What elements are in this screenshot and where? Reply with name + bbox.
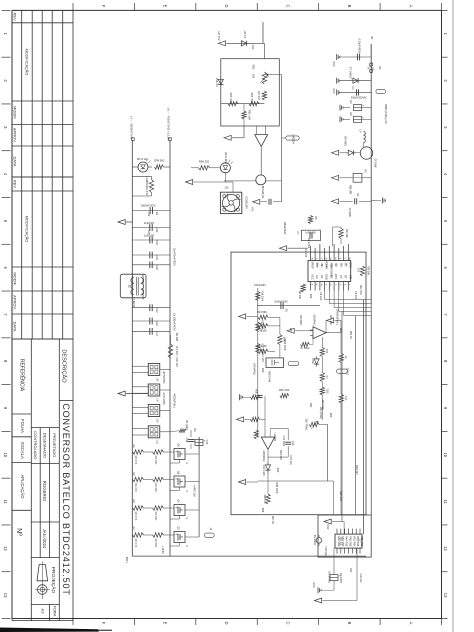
svg-text:C15: C15 <box>205 440 209 445</box>
svg-text:APLICAÇÃO: APLICAÇÃO <box>20 475 25 500</box>
svg-text:VD2 4148: VD2 4148 <box>262 465 265 476</box>
svg-text:D: D <box>224 621 229 624</box>
svg-text:FORM.: FORM. <box>53 606 57 617</box>
svg-text:PROJEÇÃO: PROJEÇÃO <box>50 567 57 594</box>
svg-text:JAN./2024: JAN./2024 <box>42 529 47 549</box>
svg-text:D10: D10 <box>311 359 315 364</box>
svg-text:APROV.: APROV. <box>13 295 18 310</box>
svg-text:D*10d8: D*10d8 <box>374 159 378 168</box>
svg-text:U9 TLP250: U9 TLP250 <box>162 392 165 405</box>
svg-text:UP 24V: UP 24V <box>217 31 221 40</box>
svg-text:C2: C2 <box>315 275 319 279</box>
svg-text:1000uF/25V: 1000uF/25V <box>140 204 155 208</box>
svg-text:AMD (FWL)+F2: AMD (FWL)+F2 <box>384 104 388 124</box>
svg-text:B: B <box>347 5 352 8</box>
svg-text:U7: U7 <box>358 539 362 543</box>
svg-text:R27 1K: R27 1K <box>271 516 274 525</box>
svg-text:C: C <box>285 4 290 7</box>
svg-text:F: F <box>101 5 106 8</box>
svg-text:10uF/25V: 10uF/25V <box>339 573 342 584</box>
svg-text:C13: C13 <box>291 441 294 446</box>
svg-text:16 VREF: 16 VREF <box>325 261 327 271</box>
svg-text:CR9 560: CR9 560 <box>154 159 165 163</box>
svg-text:R14 2K2: R14 2K2 <box>307 238 311 249</box>
svg-text:REF 2V5: REF 2V5 <box>339 491 342 502</box>
svg-text:D13: D13 <box>251 45 255 50</box>
svg-text:MR 22R: MR 22R <box>154 456 157 465</box>
svg-text:FOLHA: FOLHA <box>20 419 25 433</box>
svg-text:2x470uF/25V: 2x470uF/25V <box>173 248 177 266</box>
svg-text:B1 4MHz: B1 4MHz <box>313 535 316 546</box>
svg-text:NS 2x54T: NS 2x54T <box>141 288 144 300</box>
svg-text:D6 4148: D6 4148 <box>344 136 347 146</box>
svg-text:D12: D12 <box>276 468 279 473</box>
svg-text:OSC: OSC <box>330 263 332 268</box>
svg-text:UP 1A: UP 1A <box>243 31 247 39</box>
svg-text:BD139 Q3: BD139 Q3 <box>261 186 265 199</box>
svg-text:R38 100K: R38 100K <box>261 291 264 302</box>
svg-text:LAMPADA 24V: LAMPADA 24V <box>145 176 149 195</box>
svg-text:5A: 5A <box>378 66 381 69</box>
svg-text:A: A <box>408 622 413 625</box>
svg-text:1N4744: 1N4744 <box>215 77 219 87</box>
svg-text:CONVERSOR BATELCO BTDC2412.50T: CONVERSOR BATELCO BTDC2412.50T <box>61 403 71 595</box>
svg-text:2 IN-: 2 IN- <box>320 263 322 268</box>
svg-text:C10: C10 <box>155 321 159 326</box>
svg-text:TV-2WB: TV-2WB <box>348 207 351 217</box>
svg-text:R44 56K: R44 56K <box>257 311 267 314</box>
svg-text:U2B(FWL): U2B(FWL) <box>262 450 265 462</box>
svg-text:F: F <box>101 622 106 625</box>
svg-text:1uF/63V: 1uF/63V <box>144 221 155 225</box>
svg-text:XD & LD: XD & LD <box>137 157 148 161</box>
svg-text:BAT+: BAT+ <box>125 557 129 564</box>
svg-text:MODIFICAÇÃO: MODIFICAÇÃO <box>24 216 29 243</box>
svg-text:B: B <box>347 622 352 625</box>
svg-text:RT: RT <box>344 275 348 279</box>
svg-text:C14: C14 <box>185 438 189 443</box>
svg-text:11: 11 <box>3 499 8 504</box>
svg-text:U10: U10 <box>156 418 159 423</box>
svg-text:C20 102: C20 102 <box>175 357 178 367</box>
svg-text:12: 12 <box>443 546 448 551</box>
svg-text:U2A(FWL): U2A(FWL) <box>313 314 316 326</box>
svg-text:REV: REV <box>13 180 18 189</box>
svg-text:TA: TA <box>366 66 369 69</box>
svg-text:C31 104: C31 104 <box>359 573 362 583</box>
svg-text:R26: R26 <box>261 508 264 513</box>
svg-text:R31: R31 <box>349 568 352 573</box>
svg-text:LM2904: LM2904 <box>292 134 296 144</box>
svg-text:C9 103: C9 103 <box>319 292 322 301</box>
svg-text:R21 1K: R21 1K <box>349 331 352 340</box>
svg-text:APROV.: APROV. <box>13 128 18 143</box>
svg-text:+13,8V: +13,8V <box>161 546 164 554</box>
svg-text:TL431: TL431 <box>346 367 350 375</box>
svg-text:C18: C18 <box>155 265 159 270</box>
svg-text:4K7: 4K7 <box>344 396 347 401</box>
svg-text:R13: R13 <box>309 294 312 299</box>
svg-text:ESCALA: ESCALA <box>20 442 25 459</box>
svg-text:R29 4K7: R29 4K7 <box>355 465 358 475</box>
svg-text:C19 10n: C19 10n <box>289 455 292 465</box>
svg-text:R22 10K: R22 10K <box>321 400 324 410</box>
svg-text:D7 1N4007: D7 1N4007 <box>349 67 352 80</box>
svg-text:REV: REV <box>13 12 18 21</box>
svg-text:C11 104: C11 104 <box>261 352 264 362</box>
svg-text:C22: C22 <box>155 228 159 233</box>
svg-text:E: E <box>163 622 168 625</box>
svg-text:RB3: RB3 <box>349 542 352 547</box>
svg-text:1 IN+: 1 IN+ <box>316 262 318 268</box>
svg-text:RB4: RB4 <box>352 542 355 547</box>
svg-text:IRFZ44N: IRFZ44N <box>268 371 272 382</box>
svg-text:10: 10 <box>3 452 8 457</box>
svg-text:MR 22R: MR 22R <box>154 512 157 521</box>
svg-text:MR 47K: MR 47K <box>134 483 137 492</box>
svg-text:DTC: DTC <box>334 274 338 279</box>
svg-text:C: C <box>285 621 290 624</box>
svg-text:R30: R30 <box>326 389 329 394</box>
svg-text:R62: R62 <box>252 65 256 70</box>
svg-text:E1: E1 <box>320 275 324 279</box>
svg-text:13: 13 <box>3 593 8 598</box>
svg-text:T1 EE42: T1 EE42 <box>132 297 136 308</box>
svg-text:OSC: OSC <box>326 524 329 529</box>
svg-text:RA4: RA4 <box>345 536 348 541</box>
svg-text:+: + <box>362 115 364 119</box>
svg-text:D: D <box>224 4 229 7</box>
svg-text:R2 22R: R2 22R <box>175 333 178 342</box>
svg-text:VR1: VR1 <box>309 403 312 408</box>
svg-text:R8 10K: R8 10K <box>345 229 349 238</box>
svg-text:T2: T2 <box>127 284 131 288</box>
svg-text:D1 4148: D1 4148 <box>185 420 188 430</box>
svg-text:R0 470: R0 470 <box>257 91 261 100</box>
svg-text:RA5: RA5 <box>349 536 352 541</box>
svg-text:R39 (FWL): R39 (FWL) <box>261 320 264 332</box>
svg-text:R23: R23 <box>329 413 332 418</box>
svg-text:VCC: VCC <box>311 274 315 280</box>
svg-text:C30 22p: C30 22p <box>324 546 327 556</box>
svg-text:11: 11 <box>443 499 448 504</box>
svg-text:UM393(FWL): UM393(FWL) <box>336 309 340 325</box>
svg-text:A: A <box>408 5 413 8</box>
svg-text:GND: GND <box>332 61 335 67</box>
svg-text:R17: R17 <box>289 328 292 333</box>
svg-text:R20: R20 <box>339 328 342 333</box>
svg-text:100nF/63V: 100nF/63V <box>254 284 266 287</box>
svg-text:MR 22R: MR 22R <box>154 483 157 492</box>
svg-text:0.33uF/400V: 0.33uF/400V <box>358 39 362 54</box>
svg-text:(-) ← NEGATIVO: (-) ← NEGATIVO <box>129 116 133 140</box>
svg-text:C21: C21 <box>155 255 159 260</box>
svg-text:C22: C22 <box>147 212 150 217</box>
svg-text:RB2: RB2 <box>345 542 348 547</box>
svg-text:NP 2x5T: NP 2x5T <box>141 274 144 284</box>
svg-text:R18 100K: R18 100K <box>283 339 286 350</box>
svg-text:MODIF.: MODIF. <box>13 106 18 120</box>
svg-text:10K TRIM: 10K TRIM <box>305 418 308 429</box>
svg-text:100uF/63V: 100uF/63V <box>283 221 287 234</box>
svg-text:ROGERIO: ROGERIO <box>42 481 47 502</box>
svg-text:MR 47K: MR 47K <box>134 456 137 465</box>
svg-text:(+) ← POSITIVO +13,8V: (+) ← POSITIVO +13,8V <box>167 107 171 140</box>
svg-text:C3 104: C3 104 <box>304 249 308 258</box>
svg-text:E: E <box>163 5 168 8</box>
svg-text:2x100nF/63V: 2x100nF/63V <box>173 313 177 331</box>
svg-text:DESENHADO: DESENHADO <box>43 433 48 458</box>
svg-text:DATA: DATA <box>13 156 18 166</box>
svg-text:MR 47K: MR 47K <box>134 539 137 548</box>
svg-text:GND: GND <box>332 88 335 94</box>
svg-text:PROJETADO: PROJETADO <box>52 433 57 457</box>
svg-text:FB: FB <box>348 275 352 279</box>
svg-text:R35 1K5: R35 1K5 <box>279 388 290 392</box>
svg-text:MODIF.: MODIF. <box>13 272 18 286</box>
svg-text:R65 10K: R65 10K <box>248 110 252 120</box>
svg-text:R16 10K: R16 10K <box>329 315 332 325</box>
svg-text:REFERÊNCIA: REFERÊNCIA <box>19 359 27 392</box>
svg-text:MR 22R: MR 22R <box>154 539 157 548</box>
svg-text:330nF/250VAC: 330nF/250VAC <box>351 96 367 99</box>
svg-text:CT: CT <box>339 275 343 279</box>
svg-text:CONTROLADO: CONTROLADO <box>33 431 38 459</box>
svg-text:12V: 12V <box>224 187 229 190</box>
svg-text:PIC-16: PIC-16 <box>339 537 343 546</box>
svg-text:DTC: DTC <box>348 262 352 267</box>
svg-text:10K: 10K <box>252 74 256 79</box>
svg-text:U11: U11 <box>156 439 159 444</box>
svg-text:D8 4148: D8 4148 <box>299 315 302 325</box>
svg-text:R66 220: R66 220 <box>199 160 210 164</box>
svg-text:R6 10K: R6 10K <box>298 291 301 300</box>
svg-text:12: 12 <box>3 546 8 551</box>
svg-text:C12: C12 <box>155 308 159 313</box>
svg-text:COOLER: COOLER <box>245 196 249 208</box>
svg-text:C7: C7 <box>296 231 300 235</box>
svg-text:1K: 1K <box>344 356 347 359</box>
svg-text:GND: GND <box>312 582 315 588</box>
svg-text:+E5 (FWL): +E5 (FWL) <box>328 571 331 583</box>
svg-text:C5 102: C5 102 <box>354 291 357 300</box>
svg-text:2K2: 2K2 <box>325 349 328 354</box>
svg-text:R28 47K: R28 47K <box>263 494 266 504</box>
svg-text:A3: A3 <box>41 609 46 615</box>
svg-text:R70 100K: R70 100K <box>282 436 285 447</box>
svg-text:R64 470: R64 470 <box>250 93 254 103</box>
svg-text:10: 10 <box>443 452 448 457</box>
svg-text:C23: C23 <box>155 240 159 245</box>
svg-text:VREF: VREF <box>311 262 315 269</box>
svg-text:R36 100K: R36 100K <box>275 482 278 493</box>
svg-text:R25 47K: R25 47K <box>279 450 282 460</box>
svg-text:R11 47K: R11 47K <box>359 285 362 295</box>
svg-text:+4R7/1W: +4R7/1W <box>192 484 196 496</box>
svg-text:13: 13 <box>443 593 448 598</box>
svg-text:+E8 (FWL): +E8 (FWL) <box>253 363 256 375</box>
svg-text:D14 LED2: D14 LED2 <box>224 152 227 164</box>
svg-text:MODIFICAÇÃO: MODIFICAÇÃO <box>24 49 29 76</box>
svg-text:DATA: DATA <box>13 321 18 331</box>
svg-text:R63 470: R63 470 <box>229 93 233 103</box>
svg-text:R19: R19 <box>261 368 264 373</box>
svg-text:R. 56K2: R. 56K2 <box>301 347 310 350</box>
svg-text:GND: GND <box>325 274 329 280</box>
svg-text:1000uF/63V: 1000uF/63V <box>274 301 288 304</box>
svg-text:+5V: +5V <box>251 207 255 212</box>
svg-text:NR(-)PB: NR(-)PB <box>349 185 352 195</box>
svg-text:MR 47K: MR 47K <box>134 512 137 521</box>
svg-text:+: + <box>362 104 364 108</box>
svg-text:4N25(FWL): 4N25(FWL) <box>173 393 177 408</box>
svg-text:VSS: VSS <box>352 536 355 541</box>
svg-text:Nº: Nº <box>15 528 22 536</box>
svg-text:C17: C17 <box>155 332 159 337</box>
svg-text:DESCRIÇÃO: DESCRIÇÃO <box>60 349 67 383</box>
svg-text:R9 56K: R9 56K <box>367 267 371 276</box>
svg-text:R1 4K7: R1 4K7 <box>175 346 179 356</box>
svg-text:U8 TLP250: U8 TLP250 <box>162 371 165 384</box>
svg-text:C23: C23 <box>147 230 150 235</box>
svg-text:LM2904: LM2904 <box>273 433 276 442</box>
svg-text:+E8: +E8 <box>255 389 258 394</box>
svg-text:1uF/100V: 1uF/100V <box>305 231 316 234</box>
